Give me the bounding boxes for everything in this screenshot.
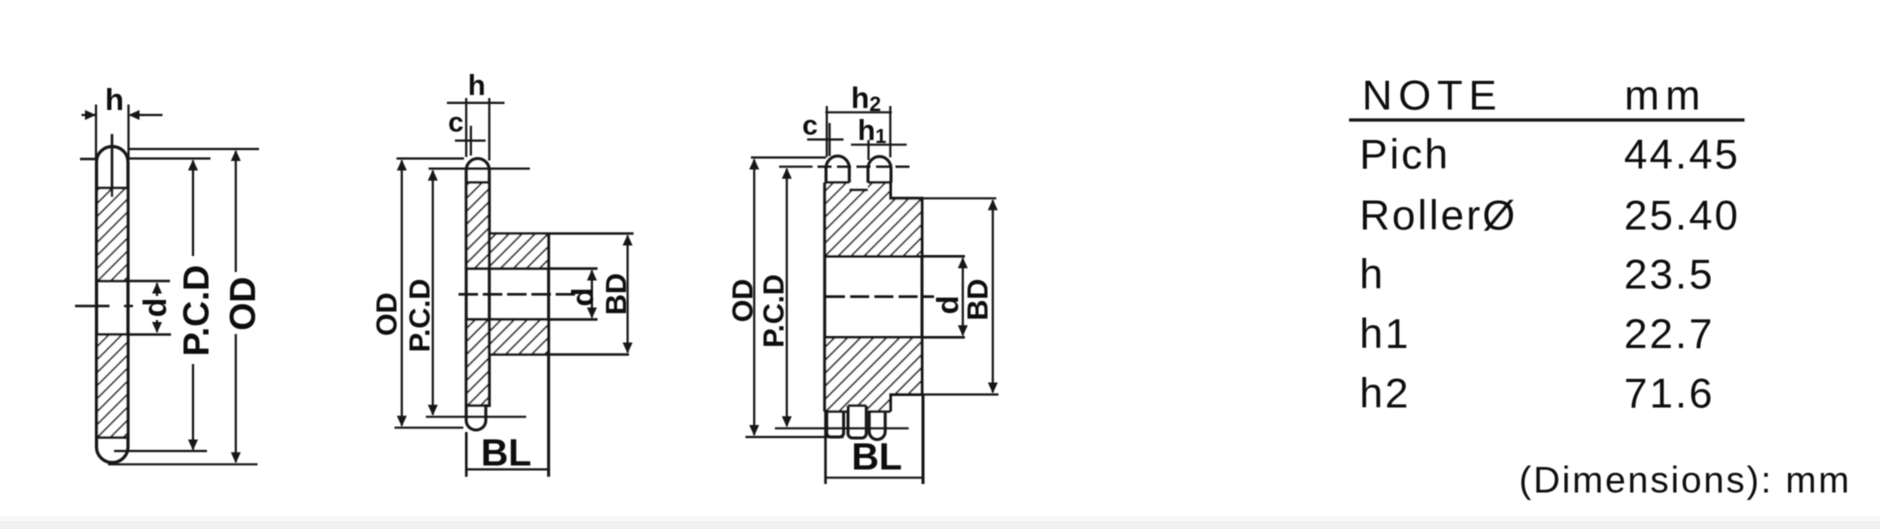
svg-text:d: d xyxy=(137,298,173,318)
svg-text:BD: BD xyxy=(601,273,633,315)
tooth root line top xyxy=(466,181,489,184)
svg-text:P.C.D: P.C.D xyxy=(404,279,436,353)
dimension c (view 3) xyxy=(807,123,843,156)
svg-text:OD: OD xyxy=(372,292,404,336)
bore top line / d extension xyxy=(97,280,171,283)
bottom tooth middle xyxy=(848,406,866,439)
tooth root line bottom xyxy=(97,436,129,439)
dimension d (view 1) xyxy=(152,283,162,334)
svg-text:25.40: 25.40 xyxy=(1624,192,1740,239)
bottom groove floor xyxy=(848,404,866,407)
hub top edge / BD extension xyxy=(489,232,633,235)
bottom tooth left xyxy=(827,412,844,438)
svg-text:22.7: 22.7 xyxy=(1624,310,1715,357)
hub right edge, extended down for BL xyxy=(547,234,550,477)
dashed centerline xyxy=(459,293,576,296)
dimension h (view 1) xyxy=(82,105,163,159)
svg-text:Pich: Pich xyxy=(1360,131,1451,178)
bore bottom line / d extension xyxy=(466,318,597,321)
hatch upper region xyxy=(825,183,922,257)
svg-text:P.C.D: P.C.D xyxy=(758,274,790,348)
svg-text:d: d xyxy=(930,295,965,314)
svg-text:h2: h2 xyxy=(1360,369,1411,416)
dimension d (view 3) xyxy=(958,257,968,336)
faint scan band at bottom xyxy=(0,516,1880,521)
svg-text:d: d xyxy=(565,288,600,307)
sprocket view 3: duplex sprocket with hub, cross-section xyxy=(818,156,965,439)
svg-text:h2: h2 xyxy=(851,82,881,116)
hub bottom edge / BD extension xyxy=(489,353,629,356)
dimension P.C.D (view 2) xyxy=(426,169,530,417)
svg-text:(Dimensions): mm: (Dimensions): mm xyxy=(1519,460,1851,501)
dimension h1 (view 3) xyxy=(851,140,907,160)
svg-text:RollerØ: RollerØ xyxy=(1360,192,1518,239)
sprocket view 1: plate sprocket cross-section xyxy=(75,134,171,463)
dimension OD (view 3) xyxy=(745,158,843,438)
svg-text:71.6: 71.6 xyxy=(1624,369,1715,416)
svg-text:h: h xyxy=(105,82,124,117)
bottom tooth right xyxy=(869,412,885,440)
centerline dashes xyxy=(75,305,110,307)
svg-text:44.45: 44.45 xyxy=(1624,131,1740,178)
svg-text:BL: BL xyxy=(481,433,532,475)
dimension P.C.D (view 1) xyxy=(114,159,211,452)
dimension h2 (view 3) xyxy=(825,106,892,157)
table header underline xyxy=(1349,118,1745,121)
hatch lower region xyxy=(825,337,922,411)
dimension c (view 2) xyxy=(455,126,486,156)
hatch upper region (plate + hub) xyxy=(466,183,548,269)
svg-text:23.5: 23.5 xyxy=(1624,251,1715,298)
top tooth A xyxy=(826,156,849,182)
svg-text:OD: OD xyxy=(728,279,760,323)
svg-text:BL: BL xyxy=(851,437,902,479)
top root line xyxy=(825,181,850,184)
dashed centerline xyxy=(826,295,934,298)
hatch lower region (plate + hub) xyxy=(466,319,548,405)
dimension OD (view 1) xyxy=(108,149,259,464)
svg-text:mm: mm xyxy=(1624,71,1706,118)
plate outline with teeth xyxy=(466,159,489,430)
svg-text:P.C.D: P.C.D xyxy=(175,265,216,356)
tooth centerline xyxy=(111,134,114,197)
svg-text:h1: h1 xyxy=(858,115,887,148)
dimension BD (view 2) xyxy=(623,235,633,354)
bore top line / d extension xyxy=(825,255,965,258)
dimension BL (view 2) xyxy=(466,432,548,477)
bore top line / d extension xyxy=(466,267,597,270)
top groove floor xyxy=(849,189,868,192)
tooth root line top xyxy=(97,187,129,190)
hatch upper band xyxy=(97,188,127,281)
svg-text:BD: BD xyxy=(962,279,994,321)
top tooth B xyxy=(868,157,891,183)
svg-text:NOTE: NOTE xyxy=(1362,71,1503,118)
pitch tick left of top tooth xyxy=(80,158,97,161)
hatch lower band xyxy=(97,335,127,438)
body outline xyxy=(825,183,922,412)
dimension BD (view 3) xyxy=(891,198,999,394)
sprocket view 2: sprocket with hub, cross-section xyxy=(459,159,634,477)
svg-text:OD: OD xyxy=(222,277,263,331)
bore bottom line / d extension xyxy=(825,336,965,339)
svg-text:c: c xyxy=(802,110,818,141)
svg-text:c: c xyxy=(448,107,464,138)
svg-text:h: h xyxy=(1360,251,1386,298)
dimension d (view 2) xyxy=(587,270,597,319)
dimension OD (view 2) xyxy=(395,159,465,428)
dimension h (view 2) xyxy=(447,98,505,161)
dashed pitch line top xyxy=(818,165,915,167)
plate outline xyxy=(97,147,129,463)
svg-text:h1: h1 xyxy=(1360,310,1411,357)
tooth root line bottom xyxy=(466,404,489,407)
dimension P.C.D (view 3) xyxy=(775,167,909,429)
bore bottom line / d extension xyxy=(97,333,172,336)
svg-text:h: h xyxy=(468,70,486,102)
dimension BL (view 3) xyxy=(826,395,924,485)
bottom root line xyxy=(825,410,848,413)
